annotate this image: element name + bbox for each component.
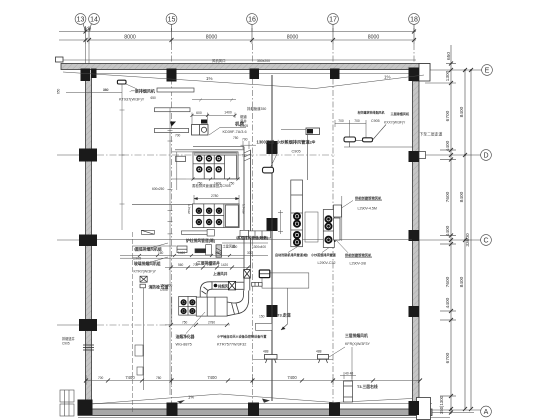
column inner wall row D	[267, 141, 278, 154]
bottom slope arrows	[177, 400, 185, 404]
svg-text:780: 780	[156, 376, 162, 380]
svg-text:700: 700	[354, 119, 360, 123]
svg-text:8000: 8000	[368, 35, 380, 41]
fire damper x-box left	[140, 276, 147, 282]
svg-text:1%: 1%	[188, 395, 194, 400]
riser hatch segment	[244, 150, 251, 161]
svg-text:14: 14	[90, 16, 98, 23]
svg-text:烟道: 烟道	[240, 114, 247, 119]
grid bubble 18	[409, 14, 420, 32]
svg-text:KFR(X)W/3F3Y: KFR(X)W/3F3Y	[345, 342, 371, 346]
svg-text:C905: C905	[62, 342, 70, 346]
damper box on riser	[244, 270, 251, 279]
grid bubble 13	[75, 14, 86, 32]
top dimension line lower	[59, 39, 416, 41]
svg-text:L290V-C32: L290V-C32	[318, 261, 336, 265]
leader right room 2	[336, 240, 348, 253]
inline exhaust fan duct section	[212, 282, 228, 289]
wok station right rect	[323, 210, 334, 248]
column grid15 top	[167, 69, 177, 82]
row B dashed stub	[97, 324, 171, 326]
svg-text:小平袖自动灭火设备及控制设备外置: 小平袖自动灭火设备及控制设备外置	[217, 334, 267, 339]
column bottom wall grid16	[248, 403, 259, 417]
hood 1	[193, 152, 238, 179]
svg-text:4400: 4400	[445, 140, 451, 151]
row D left stub	[57, 154, 79, 156]
svg-text:1300x400: 1300x400	[252, 245, 266, 249]
svg-text:下至二层走道: 下至二层走道	[420, 132, 443, 137]
riser segment below damper	[244, 278, 250, 290]
right room dim line	[341, 196, 343, 241]
svg-text:供相邻建筑物风机: 供相邻建筑物风机	[354, 196, 382, 201]
svg-text:560: 560	[178, 263, 184, 267]
damper rounded box right room 1	[344, 137, 356, 142]
hood1 burners	[197, 156, 221, 172]
bottom interior dim line	[86, 375, 420, 385]
svg-text:1400: 1400	[224, 111, 232, 115]
svg-text:18: 18	[410, 16, 418, 23]
svg-text:488: 488	[263, 350, 269, 354]
column right wall bottom	[409, 401, 420, 415]
svg-text:C905: C905	[133, 257, 142, 261]
label fan model	[220, 126, 246, 128]
bench between wok stations	[305, 212, 318, 242]
grid line 14 vertical	[88, 44, 90, 68]
top right corner wall return	[419, 64, 430, 82]
grid bubble 14	[89, 14, 100, 32]
svg-text:1300风道: 1300风道	[257, 139, 276, 146]
column grid16 top	[250, 69, 260, 80]
svg-text:6700: 6700	[445, 110, 451, 121]
long dim line left of grid15 room	[168, 108, 173, 395]
column left wall row B	[79, 319, 97, 331]
dim ticks fan dim line	[191, 114, 237, 117]
svg-text:2780: 2780	[211, 194, 219, 198]
right dim chain line 2	[464, 70, 466, 409]
svg-text:风机风口: 风机风口	[212, 58, 226, 63]
svg-text:1460: 1460	[178, 251, 185, 255]
svg-text:T3.三层右线: T3.三层右线	[357, 384, 378, 389]
louver box pair top right	[306, 128, 320, 135]
svg-text:7600: 7600	[445, 276, 451, 287]
svg-text:KTR7577W/3F32: KTR7577W/3F32	[217, 343, 246, 347]
hood1 left dim line	[172, 152, 193, 190]
svg-text:油烟净化器: 油烟净化器	[176, 334, 195, 339]
bottom exterior wall	[78, 409, 432, 416]
shaft boxes at grid17	[334, 205, 342, 240]
column top right corner E18	[409, 68, 420, 82]
column inner wall row C	[267, 218, 278, 231]
svg-text:7400: 7400	[207, 375, 217, 380]
louver with legs bottom 2	[318, 355, 329, 364]
louver with legs bottom 1	[265, 355, 278, 364]
wok station right burners	[326, 216, 332, 243]
wok dim line	[278, 210, 283, 234]
right grid bubble D	[419, 150, 491, 161]
svg-text:L290V-3/8: L290V-3/8	[350, 262, 366, 266]
wok station left rect	[291, 180, 303, 247]
right dim row extension stubs	[425, 64, 474, 413]
svg-text:玻璃排烟风机组: 玻璃排烟风机组	[134, 261, 161, 266]
extra box left of hatched duct	[206, 245, 212, 255]
svg-text:WG-8875: WG-8875	[176, 343, 192, 347]
svg-text:7600: 7600	[445, 191, 451, 202]
svg-text:750: 750	[233, 136, 239, 140]
hood3 burners	[181, 300, 194, 313]
bold damper box	[259, 270, 270, 278]
bottom right corner pilaster	[417, 398, 431, 420]
hood2 feed line left	[132, 203, 193, 205]
svg-text:7400: 7400	[125, 375, 135, 380]
svg-text:13: 13	[77, 16, 85, 23]
leader diagonal to fan label	[126, 84, 137, 89]
svg-text:A: A	[484, 409, 489, 416]
svg-text:6700: 6700	[445, 352, 451, 363]
top dimension line upper	[59, 31, 416, 33]
dishwasher room outline	[262, 273, 309, 324]
svg-text:300: 300	[84, 27, 92, 32]
duct line to riser	[175, 147, 244, 150]
svg-text:上通风井: 上通风井	[213, 271, 228, 276]
svg-text:700: 700	[338, 119, 344, 123]
svg-text:488: 488	[316, 350, 322, 354]
exhaust riser duct vertical	[244, 147, 251, 269]
counter row below hood2	[177, 245, 222, 257]
svg-text:T3.走道: T3.走道	[277, 312, 291, 318]
svg-text:C: C	[483, 238, 488, 245]
small box left bottom room	[137, 367, 143, 375]
horizontal line y92	[66, 90, 122, 93]
svg-text:15: 15	[168, 16, 176, 23]
right grid bubble C	[419, 235, 491, 246]
grid bubble 16	[247, 14, 258, 32]
grid bubble 17	[328, 14, 339, 32]
hood 3	[179, 296, 197, 315]
svg-text:2780: 2780	[208, 320, 215, 324]
fan unit box	[192, 120, 209, 136]
dim line above fan	[192, 113, 235, 125]
svg-text:相邻建筑物排烟风机: 相邻建筑物排烟风机	[358, 110, 385, 115]
supply duct rect upper	[155, 108, 191, 112]
supply duct rect lower	[155, 128, 189, 132]
grid line 17 vertical dashed	[332, 44, 334, 412]
svg-text:#55x[?]: #55x[?]	[242, 204, 246, 214]
elbow duct from hood3	[200, 282, 244, 297]
svg-text:小炒蒸烟排风管道: 小炒蒸烟排风管道	[311, 252, 337, 257]
column grid14 top small	[91, 69, 97, 79]
inner wall vertical x272	[271, 75, 273, 401]
svg-text:7400: 7400	[287, 375, 297, 380]
leader right room 1	[342, 201, 354, 209]
roof slope line left leg	[63, 72, 315, 89]
small box below damper	[140, 284, 145, 288]
bench line bottom	[253, 359, 333, 361]
svg-text:C905: C905	[240, 124, 248, 128]
counter row above row C line	[141, 229, 270, 238]
connect dampers	[344, 125, 413, 148]
svg-text:350: 350	[103, 88, 109, 92]
svg-text:排烟竖井: 排烟竖井	[62, 336, 75, 341]
svg-text:650: 650	[151, 96, 157, 100]
right dim ticks	[449, 62, 473, 415]
column right wall row D	[409, 151, 420, 162]
corridor tick row	[138, 254, 231, 257]
stair boxes outside bottom left	[60, 390, 74, 416]
column bottom wall grid13	[78, 400, 93, 416]
service corridor lines y255	[120, 243, 268, 258]
column bottom wall grid17	[329, 403, 340, 417]
bottom dim extra ticks	[106, 379, 375, 383]
leader bottom fan	[329, 347, 352, 381]
svg-text:160: 160	[158, 251, 164, 255]
svg-text:三层排烟风机: 三层排烟风机	[345, 333, 368, 338]
svg-text:KD39F-7A/3.6: KD39F-7A/3.6	[223, 130, 247, 134]
left exterior wall	[86, 70, 92, 411]
svg-text:8000: 8000	[206, 35, 218, 41]
svg-text:自动洗碗机排风管道(暗): 自动洗碗机排风管道(暗)	[275, 252, 308, 257]
svg-text:消防栓 位置: 消防栓 位置	[149, 285, 169, 290]
svg-text:1420: 1420	[221, 263, 228, 267]
column grid13/14 top	[81, 69, 91, 82]
dim marks near bottom duct	[340, 372, 356, 379]
svg-text:#55x[?]: #55x[?]	[187, 204, 191, 214]
column inner wall row B	[267, 305, 278, 317]
row B left stub	[57, 324, 79, 326]
svg-text:8000: 8000	[287, 35, 299, 41]
hood1 bottom dim ticks and labels	[192, 178, 240, 181]
chain crossing dots E row	[464, 69, 466, 71]
leader wok right	[322, 248, 329, 253]
hood3 dim ticks	[169, 266, 250, 327]
arrow T3	[281, 324, 288, 330]
svg-text:-一层排烟风机: -一层排烟风机	[130, 88, 155, 94]
svg-text:小炒蒸烟排风管道≥Ф: 小炒蒸烟排风管道≥Ф	[276, 139, 316, 146]
svg-text:D: D	[483, 153, 488, 160]
svg-text:650: 650	[57, 88, 61, 94]
column left wall row C	[79, 235, 97, 247]
row C left stub	[57, 239, 79, 241]
dim extension verticals top	[86, 26, 415, 44]
hood2	[193, 204, 240, 228]
damper x box after fan	[228, 281, 235, 290]
right grid bubble A	[431, 406, 492, 417]
svg-text:供相邻建筑物风机: 供相邻建筑物风机	[344, 253, 372, 258]
line from louver to wok shaft	[307, 135, 309, 181]
purifier box right of hood3	[196, 297, 227, 316]
svg-text:350x200: 350x200	[257, 59, 270, 63]
svg-text:33600: 33600	[465, 233, 471, 247]
dim line above fan room y99	[192, 99, 236, 102]
svg-text:蒸柜排风管道接竖井C905: 蒸柜排风管道接竖井C905	[192, 183, 231, 188]
grid line 18 vertical dashed	[413, 44, 415, 68]
svg-text:8400: 8400	[459, 191, 465, 202]
small dim stack left of grid16	[241, 141, 257, 149]
column right wall row C	[409, 230, 420, 241]
column bottom wall grid15	[167, 403, 178, 417]
bottom slope line mid	[220, 394, 334, 403]
svg-text:三层排烟风机: 三层排烟风机	[391, 111, 410, 116]
hood2 burners	[197, 208, 222, 224]
right grid bubble E	[430, 65, 492, 76]
svg-text:8000: 8000	[124, 35, 136, 41]
grid line 16 vertical dashed	[252, 44, 254, 412]
svg-text:1%: 1%	[384, 75, 391, 80]
top exterior wall	[61, 60, 430, 74]
svg-text:600x250: 600x250	[152, 187, 164, 191]
row D dashed line	[97, 154, 335, 156]
svg-text:1300: 1300	[215, 251, 222, 255]
small box under T3	[256, 323, 273, 330]
right exterior wall	[413, 81, 420, 403]
svg-text:土建风道: 土建风道	[223, 244, 237, 249]
svg-text:600: 600	[196, 111, 202, 115]
box right of D column	[419, 152, 426, 159]
svg-text:C905: C905	[292, 150, 301, 154]
damper rounded box mid	[263, 167, 274, 173]
duct end box	[252, 282, 262, 286]
row C line	[97, 239, 412, 241]
svg-text:350|1300: 350|1300	[439, 395, 444, 414]
svg-text:700: 700	[242, 137, 248, 141]
column grid17 row C small	[330, 235, 336, 242]
supply duct rect top	[157, 88, 194, 92]
corner vent box top left	[56, 57, 64, 62]
small cabinet left of hood1	[176, 156, 186, 161]
small riser duct bottom	[344, 381, 353, 402]
svg-text:700: 700	[175, 134, 181, 138]
column left wall row D	[79, 149, 97, 162]
bottom dim ticks	[84, 379, 422, 383]
svg-text:40 40: 40 40	[345, 372, 353, 376]
svg-text:16: 16	[248, 16, 256, 23]
leader wok left	[288, 247, 297, 253]
damper rounded box right room 2	[363, 138, 373, 142]
interior dim vertical x122	[120, 93, 125, 231]
svg-text:4400: 4400	[445, 297, 451, 308]
svg-text:8400: 8400	[459, 106, 465, 117]
left riser upper box	[135, 345, 143, 356]
right dim chain line 3	[470, 70, 472, 409]
svg-text:竖井: 竖井	[240, 119, 247, 124]
section marker grid15	[170, 122, 176, 127]
first floor fan louver box top left	[117, 80, 126, 84]
svg-text:C905: C905	[371, 119, 380, 123]
svg-text:/蒸柜排风管道(暗敷): /蒸柜排风管道(暗敷)	[236, 235, 269, 240]
wok station left burners	[294, 213, 300, 245]
svg-text:300: 300	[247, 251, 253, 255]
hood3 dim lines	[165, 268, 250, 325]
svg-text:650: 650	[446, 52, 452, 60]
dim tick marks top	[84, 30, 417, 43]
svg-text:1%: 1%	[206, 76, 213, 81]
svg-text:/三层排烟竖井: /三层排烟竖井	[196, 261, 220, 266]
svg-text:排烟管道350: 排烟管道350	[247, 106, 266, 111]
riser elbow to hood3 box	[227, 291, 249, 316]
svg-text:E: E	[485, 68, 490, 75]
grid line 13 vertical	[85, 44, 87, 68]
svg-text:炉灶排风管道(暗): 炉灶排风管道(暗)	[185, 238, 216, 243]
svg-text:KTR7(W/3F)Y: KTR7(W/3F)Y	[134, 270, 157, 274]
svg-text:4400: 4400	[445, 225, 451, 236]
dim line above dampers	[335, 120, 366, 138]
right dim chain line 1	[450, 45, 452, 414]
grid bubble 15	[166, 14, 177, 32]
leader purifier	[186, 312, 205, 334]
svg-text:/圆弧排烟风机组: /圆弧排烟风机组	[134, 247, 162, 252]
roof slope line right leg	[315, 75, 424, 89]
column right wall row B	[409, 306, 420, 317]
svg-text:KXX7(W/3F)Y: KXX7(W/3F)Y	[384, 120, 406, 124]
svg-text:1300: 1300	[445, 70, 451, 81]
svg-text:17: 17	[329, 16, 337, 23]
column grid17 top	[330, 69, 340, 80]
grid line 15 vertical dashed	[171, 44, 173, 412]
svg-text:KT937(W/3F)Y: KT937(W/3F)Y	[119, 98, 145, 102]
svg-text:L290V-4.5M: L290V-4.5M	[358, 207, 377, 211]
hood2 top dim with arrows	[194, 195, 239, 204]
left riser line down	[143, 288, 145, 390]
leader vertical from louver	[121, 84, 123, 93]
bottom slope line right	[334, 399, 412, 403]
svg-text:8400: 8400	[459, 276, 465, 287]
svg-text:150: 150	[259, 315, 265, 319]
bottom slope line left	[92, 394, 220, 404]
leader damper mid	[271, 153, 278, 168]
svg-text:700: 700	[98, 376, 104, 380]
line louver to left	[281, 129, 306, 131]
left room dashed partition	[132, 232, 134, 412]
svg-text:750: 750	[182, 320, 188, 324]
expansion joint marks left wall	[83, 345, 94, 350]
leaders left labels	[146, 243, 168, 264]
